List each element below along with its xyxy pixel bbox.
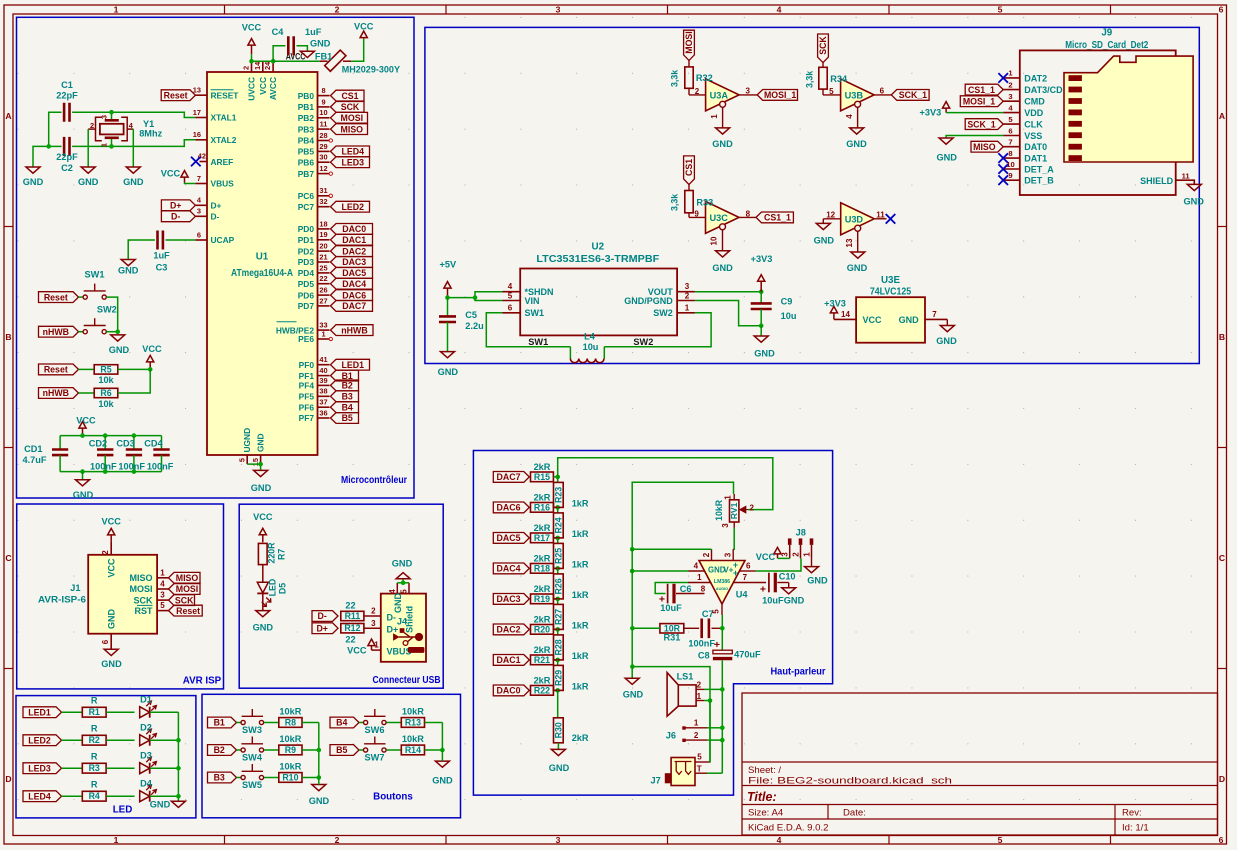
junction ladder DAC6 [555, 505, 560, 510]
U1 pin 29 PB5 [318, 150, 330, 152]
svg-text:13: 13 [845, 238, 854, 247]
svg-text:U4: U4 [736, 590, 749, 600]
ground at J9 SHIELD [1187, 184, 1201, 190]
wire +5V to U2 VIN and SHDN [448, 298, 503, 301]
wire MOSI label to R32 [688, 60, 690, 67]
wire U4 pin2 to feedback node [632, 548, 711, 550]
svg-text:+: + [760, 583, 766, 595]
wire to gnd below rail [82, 472, 84, 480]
capacitor C9 10u [760, 292, 762, 304]
junction bottom CD2 [103, 469, 108, 474]
resistor R2 [82, 735, 106, 745]
svg-text:1: 1 [321, 329, 325, 338]
svg-text:AVR ISP: AVR ISP [183, 676, 222, 687]
J9 pin 8 DAT1 [1003, 157, 1020, 159]
wire gnd rail to ground [631, 667, 633, 679]
global label B4 at U1 pin 37 [331, 402, 359, 413]
connector J7 audio jack [671, 758, 695, 786]
wire J8 pin1 to gnd [811, 558, 813, 566]
svg-text:22: 22 [319, 274, 327, 283]
svg-text:DET_B: DET_B [1024, 176, 1054, 186]
svg-text:1: 1 [160, 568, 165, 577]
global label MISO at U1 pin 11 [331, 124, 368, 135]
ground at C10 [782, 588, 796, 594]
svg-text:1: 1 [724, 495, 733, 500]
wire AVCC rail to C4 and FB1 [273, 60, 320, 62]
svg-text:SCK_1: SCK_1 [899, 90, 927, 100]
J9 pin 10 DET_A [1003, 168, 1020, 170]
svg-text:DAT1: DAT1 [1024, 154, 1047, 164]
J9 pin 1 DAT2 [1003, 77, 1020, 79]
svg-text:5: 5 [237, 458, 246, 462]
wire U4 pin4 to gnd rail [632, 570, 688, 572]
svg-text:GND: GND [784, 595, 805, 605]
IC U1 ATmega16U4-A body [207, 72, 318, 455]
global label nHWB at R6 [39, 388, 79, 399]
wire R18 to ladder [554, 567, 558, 569]
svg-text:5: 5 [400, 589, 409, 594]
power flag VCC at J8 [774, 547, 781, 558]
U4 pin 6 V+ (right) [740, 570, 756, 572]
junction +5V [445, 295, 450, 300]
svg-text:6: 6 [197, 230, 201, 239]
wire LED2 to R2 [62, 739, 83, 741]
global label SCK at U1 pin 9 [331, 102, 365, 113]
ground at Y1 pin4 [126, 167, 140, 173]
global label B3 [208, 772, 237, 783]
svg-text:VCC: VCC [76, 415, 96, 425]
svg-text:PF1: PF1 [299, 371, 315, 381]
J9 pin 6 VSS [1003, 135, 1020, 137]
global label DAC5 at U1 pin 25 [331, 268, 373, 279]
junction R14 [440, 748, 445, 753]
svg-text:22: 22 [345, 601, 355, 611]
junction bottom rail GND [80, 469, 85, 474]
svg-text:CD3: CD3 [116, 439, 134, 449]
global label LED3 at U1 pin 30 [331, 157, 370, 168]
svg-text:1kR: 1kR [572, 590, 589, 600]
wire Reset to R5 [79, 368, 95, 370]
svg-text:5: 5 [160, 601, 165, 610]
svg-text:1uF: 1uF [153, 251, 170, 261]
svg-text:GND: GND [712, 139, 733, 149]
svg-text:4: 4 [694, 562, 699, 571]
resistor R6 10k [94, 388, 118, 397]
LED D4 [140, 791, 150, 802]
svg-text:4.7uF: 4.7uF [23, 455, 47, 465]
global label DAC2 [493, 624, 529, 635]
svg-text:CMD: CMD [1024, 97, 1045, 107]
U3B enable pin 4 to ground [857, 107, 859, 128]
resistor R19 2kR [531, 594, 554, 604]
U1 pin 12 PB7 [318, 173, 330, 175]
resistor R25 1kR (vertical) [557, 538, 559, 544]
connector J1 AVR-ISP-6 body [88, 555, 157, 634]
svg-text:D+: D+ [387, 625, 399, 635]
svg-text:R21: R21 [534, 655, 550, 665]
wire SW1 to SW2 junction [106, 297, 117, 332]
U1 pin 31 PC6 [318, 195, 330, 197]
U2 pin 2 GND/PGND [677, 300, 695, 302]
global label B5 at U1 pin 36 [331, 413, 359, 424]
svg-text:R11: R11 [345, 611, 361, 621]
J1 pin 3 SCK [157, 599, 168, 601]
IC U2 LTC3531 body [520, 269, 677, 336]
svg-text:Boutons: Boutons [373, 792, 413, 803]
svg-text:MOSI: MOSI [176, 584, 198, 594]
svg-text:5: 5 [697, 753, 702, 762]
U1 pin 21 PD3 [318, 261, 330, 263]
svg-text:D-: D- [211, 212, 220, 222]
wire C6 loop to U4 pin1 [655, 583, 688, 594]
U1 pin 38 PF5 [318, 395, 330, 397]
svg-text:PE6: PE6 [298, 334, 314, 344]
boutons left gnd column [318, 723, 320, 778]
svg-text:AUDIO: AUDIO [716, 587, 728, 591]
U1 pin 14 VCC [262, 61, 264, 72]
svg-text:5: 5 [712, 609, 721, 614]
svg-text:UVCC: UVCC [247, 77, 257, 101]
wire CS1 label to R33 [688, 185, 690, 191]
svg-text:220R: 220R [267, 542, 277, 564]
svg-text:2: 2 [694, 731, 699, 740]
svg-text:B1: B1 [214, 718, 225, 728]
svg-text:U3A: U3A [710, 91, 729, 101]
wire SW5 to R10 [264, 777, 279, 779]
U1 pin 28 PB4 [318, 140, 330, 142]
wire J7 pin5 up return column [709, 701, 711, 763]
svg-text:CS1_1: CS1_1 [764, 213, 791, 223]
wire R1 to D1 [106, 711, 134, 713]
capacitor C5 2.2u [447, 298, 449, 317]
svg-text:41: 41 [319, 355, 327, 364]
ground at ladder bottom [551, 749, 565, 755]
wire B2 to SW4 [237, 749, 242, 751]
svg-text:PF5: PF5 [299, 392, 315, 402]
wire VCC to J8 pin3 [778, 557, 790, 559]
svg-text:U3C: U3C [710, 213, 729, 223]
svg-text:+: + [714, 639, 720, 651]
wire LED1 to R1 [62, 711, 83, 713]
J9 pin 5 CLK [1003, 123, 1020, 125]
svg-text:PB2: PB2 [298, 113, 315, 123]
junction UVCC [249, 59, 254, 64]
svg-text:GND: GND [118, 266, 139, 276]
svg-text:Microcontrôleur: Microcontrôleur [341, 475, 407, 486]
ground at D5 [256, 611, 270, 617]
wire R10 to gnd column [302, 777, 319, 779]
svg-text:2: 2 [685, 291, 690, 300]
svg-text:6: 6 [1219, 835, 1224, 845]
push button SW1 [83, 295, 87, 299]
svg-text:17: 17 [193, 108, 201, 117]
svg-text:B4: B4 [342, 402, 353, 412]
svg-text:10kR: 10kR [402, 734, 424, 744]
svg-text:5: 5 [998, 5, 1003, 15]
ground at C4 [300, 51, 314, 57]
svg-text:GND: GND [847, 263, 868, 273]
power flag VCC at VBUS [181, 171, 188, 183]
U4 pin 8 (left) from C6 [676, 593, 705, 595]
wire B4 to SW6 [359, 722, 364, 724]
junction LS1 pin2 [720, 687, 725, 692]
resistor R29 1kR (vertical) [557, 660, 559, 666]
svg-text:10kR: 10kR [402, 706, 424, 716]
junction C9 bottom [759, 323, 764, 328]
svg-text:Size: A4: Size: A4 [748, 808, 784, 819]
resistor R16 2kR [531, 503, 554, 513]
svg-text:J6: J6 [666, 730, 676, 740]
svg-text:4: 4 [388, 589, 397, 594]
svg-text:RESET: RESET [211, 90, 240, 100]
svg-text:GND: GND [549, 763, 570, 773]
ground at LED rail [171, 801, 185, 807]
crystal Y1 8MHz [100, 124, 124, 135]
U2 pin 4 *SHDN [503, 291, 521, 293]
U3C output pin 8 [739, 216, 756, 218]
svg-text:39: 39 [319, 376, 327, 385]
svg-text:R7: R7 [277, 549, 287, 560]
svg-text:R15: R15 [534, 472, 550, 482]
svg-text:PB1: PB1 [298, 102, 315, 112]
resistor R22 2kR [531, 686, 554, 696]
svg-text:D4: D4 [140, 779, 153, 789]
svg-text:GND: GND [899, 315, 920, 325]
svg-text:VCC: VCC [142, 344, 162, 354]
wire gnd rail to speaker return [632, 667, 710, 762]
svg-text:9: 9 [321, 97, 325, 106]
svg-text:Rev:: Rev: [1122, 808, 1142, 819]
wire SW2 to junction [106, 331, 117, 333]
svg-text:VCC: VCC [253, 512, 273, 522]
U3B output pin 6 [874, 94, 891, 96]
svg-text:3: 3 [745, 86, 750, 95]
svg-text:5: 5 [829, 87, 834, 96]
U3E pin 14 VCC [834, 318, 856, 320]
svg-text:GND: GND [754, 348, 775, 358]
resistor R3 [82, 763, 106, 773]
svg-text:100nF: 100nF [118, 461, 145, 471]
svg-text:A: A [5, 111, 11, 121]
LS1 pin 2 [696, 688, 704, 690]
wire R12 to J4 pin3 [364, 627, 381, 629]
capacitor C1 22pF [64, 103, 69, 122]
svg-text:2kR: 2kR [534, 462, 551, 472]
wire R5 to VCC junction [118, 368, 151, 370]
resistor R32 3.3k (vertical) [685, 67, 693, 88]
svg-text:R9: R9 [285, 745, 296, 755]
global label LED1 at U1 pin 41 [331, 359, 370, 370]
U3C enable pin 10 to ground [722, 230, 724, 251]
svg-text:GND: GND [251, 483, 272, 493]
svg-text:2: 2 [750, 503, 755, 512]
global label DAC6 [493, 502, 529, 513]
svg-text:DAC5: DAC5 [497, 533, 521, 543]
svg-text:+: + [733, 568, 738, 578]
svg-text:D5: D5 [278, 583, 288, 594]
ground at U3D input pin 12 [823, 218, 840, 220]
wire nHWB to SW2 [79, 331, 84, 333]
svg-text:100nF: 100nF [147, 461, 174, 471]
U1 pin 24 AVCC [272, 61, 274, 72]
U4 pin 5 (bottom) [721, 604, 723, 615]
capacitor C6 10uF (polarized) [667, 584, 669, 604]
no-connect at J9 pin 1 [998, 73, 1008, 83]
svg-text:MISO: MISO [176, 573, 199, 583]
wire U3E pin7 to gnd [946, 319, 948, 325]
svg-text:7: 7 [197, 174, 201, 183]
push button SW6 [364, 720, 368, 724]
svg-text:R4: R4 [89, 791, 100, 801]
svg-text:21: 21 [319, 252, 327, 261]
global label DAC1 at U1 pin 19 [331, 234, 373, 245]
svg-text:Date:: Date: [843, 808, 866, 819]
wire C10 to gnd [777, 582, 788, 584]
boutons right gnd column [441, 723, 443, 751]
svg-text:R13: R13 [405, 718, 421, 728]
svg-text:RST: RST [135, 606, 154, 616]
svg-text:B4: B4 [336, 718, 347, 728]
J9 pin 2 DAT3/CD [1003, 89, 1020, 91]
J1 pin 1 MISO [157, 577, 168, 579]
svg-text:PD5: PD5 [298, 279, 315, 289]
wire R19 to ladder [554, 598, 558, 600]
svg-text:2: 2 [702, 552, 711, 557]
J7 pin T [695, 772, 707, 774]
junction LED2 [176, 738, 181, 743]
svg-text:GND/PGND: GND/PGND [624, 296, 673, 306]
global label B5 [330, 745, 359, 756]
svg-text:R32: R32 [696, 73, 713, 83]
J4 pins 4,5 GND/Shield top [396, 583, 398, 594]
svg-text:100nF: 100nF [688, 638, 715, 648]
wire U4 pin6 to J8 pin2 [756, 558, 802, 571]
IC U3E 74LVC125 power unit body [856, 297, 925, 343]
svg-text:R28: R28 [554, 639, 564, 655]
LED D3 [140, 763, 150, 774]
svg-text:FB1: FB1 [315, 52, 332, 62]
svg-text:D3: D3 [140, 751, 152, 761]
resistor R4 [82, 791, 106, 801]
U1 pin 39 PF4 [318, 384, 330, 386]
J9 pin 4 VDD [1003, 112, 1020, 114]
svg-text:VCC: VCC [863, 315, 883, 325]
global label B2 [208, 745, 237, 756]
wire gnd rail to R31 [632, 627, 660, 629]
wire LS1 pin2 to column [704, 688, 722, 690]
svg-text:C5: C5 [465, 310, 477, 320]
svg-text:XTAL1: XTAL1 [211, 113, 237, 123]
svg-text:1: 1 [100, 143, 109, 147]
U1 pin 19 PD1 [318, 239, 330, 241]
svg-text:GND: GND [623, 690, 644, 700]
junction gnd rail pin4 [630, 569, 635, 574]
svg-text:J1: J1 [70, 583, 80, 593]
svg-text:SW2: SW2 [633, 337, 653, 347]
U1 pin 16 XTAL2 [195, 139, 207, 141]
global label DAC3 [493, 594, 529, 605]
wire D4 to gnd rail [150, 795, 179, 797]
svg-text:3,3k: 3,3k [670, 194, 680, 211]
wire SW4 to R9 [264, 749, 279, 751]
svg-text:GND: GND [936, 152, 957, 162]
ground at left button group [312, 785, 326, 791]
svg-text:LED2: LED2 [28, 735, 51, 745]
svg-text:GND: GND [109, 345, 130, 355]
svg-text:6: 6 [1219, 5, 1224, 15]
svg-text:LED: LED [113, 805, 133, 816]
svg-text:+3V3: +3V3 [751, 254, 773, 264]
svg-text:PF6: PF6 [299, 402, 315, 412]
svg-text:B2: B2 [342, 381, 353, 391]
svg-text:AVR-ISP-6: AVR-ISP-6 [38, 595, 86, 605]
svg-text:GND: GND [393, 593, 403, 614]
svg-text:nHWB: nHWB [43, 388, 69, 398]
svg-text:PB5: PB5 [298, 147, 315, 157]
section box AVR ISP [17, 504, 224, 689]
svg-text:SW2: SW2 [97, 305, 117, 315]
svg-text:DAT3/CD: DAT3/CD [1024, 85, 1063, 95]
frame column ticks bottom [224, 836, 226, 845]
capacitor CD2 100nF [104, 436, 106, 450]
svg-text:UCAP: UCAP [211, 235, 235, 245]
junction C7/pin5 [720, 626, 725, 631]
svg-text:LS1: LS1 [677, 672, 694, 682]
svg-text:VCC: VCC [101, 517, 121, 527]
global label SCK_1 [891, 90, 929, 101]
section box Connecteur USB [239, 504, 443, 688]
svg-text:SCK: SCK [133, 595, 153, 605]
wire left gnd drop [33, 146, 49, 167]
wire R9 to gnd column [302, 749, 319, 751]
svg-text:3,3k: 3,3k [670, 70, 680, 87]
resistor R11 22 (boxed) [341, 611, 364, 620]
svg-text:B: B [5, 332, 11, 342]
svg-text:R20: R20 [534, 624, 550, 634]
svg-text:2: 2 [335, 5, 340, 15]
svg-text:3: 3 [685, 282, 690, 291]
svg-text:PC6: PC6 [298, 191, 315, 201]
global label B1 at U1 pin 40 [331, 370, 359, 381]
svg-text:10k: 10k [98, 375, 114, 385]
svg-text:R: R [91, 780, 98, 790]
U1 pin 36 PF7 [318, 417, 330, 419]
svg-text:+5V: +5V [439, 260, 456, 270]
svg-text:C3: C3 [156, 263, 168, 273]
LED gnd rail vertical [177, 712, 179, 801]
resistor R8 10kR [279, 718, 302, 728]
svg-text:C8: C8 [698, 650, 710, 660]
svg-text:2: 2 [242, 66, 251, 70]
svg-text:PF4: PF4 [299, 381, 315, 391]
svg-text:PB3: PB3 [298, 124, 315, 134]
svg-text:25: 25 [319, 263, 327, 272]
svg-text:GND: GND [101, 659, 122, 669]
svg-text:GND: GND [255, 433, 265, 452]
ground at J1 [104, 649, 118, 655]
svg-text:DAC1: DAC1 [342, 235, 366, 245]
svg-text:11: 11 [876, 210, 885, 219]
svg-text:MOSI_1: MOSI_1 [963, 96, 995, 106]
svg-text:DET_A: DET_A [1024, 164, 1054, 174]
global label D+ at USB [312, 623, 338, 634]
svg-text:7: 7 [1008, 138, 1012, 147]
wire R20 to ladder [554, 628, 558, 630]
global label MOSI at J1 [169, 584, 201, 595]
wire Reset to SW1 [79, 296, 84, 298]
ground at C5 [441, 352, 455, 358]
svg-text:3,3k: 3,3k [805, 71, 815, 88]
